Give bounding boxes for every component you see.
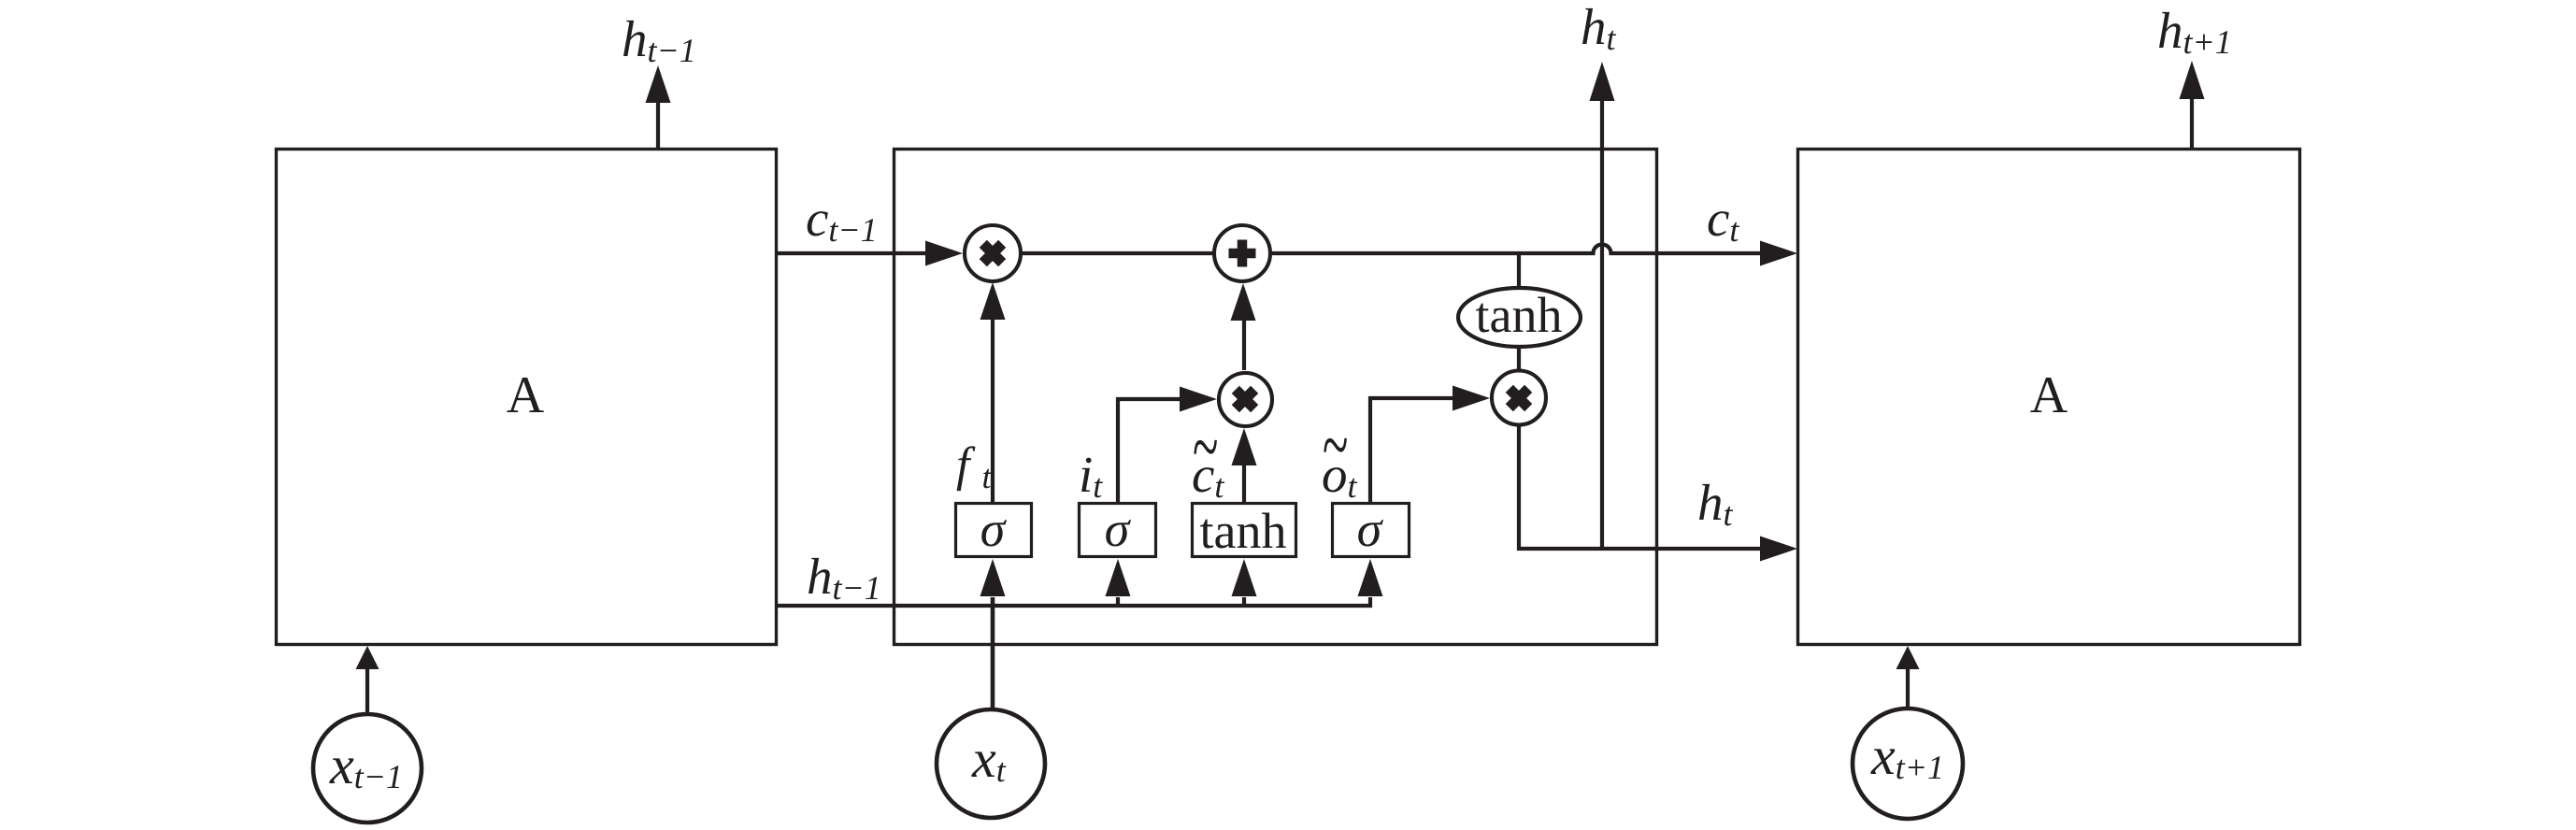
wire h_t vertical to top [1600,99,1604,549]
svg-text:it: it [1079,446,1103,505]
svg-text:ct: ct [1707,190,1739,249]
arrowhead into sigma forget box [980,559,1006,596]
svg-text:σ: σ [1105,501,1132,557]
svg-text:ct−1: ct−1 [806,190,878,249]
wire output gate up then right [1370,398,1454,503]
svg-text:σ: σ [1357,501,1384,557]
svg-text:ht−1: ht−1 [622,10,696,69]
node x_{t-1} circle [313,714,422,823]
arrowhead forget gate [980,282,1006,320]
ellipse tanh [1458,288,1581,347]
wire tanh to output multiply [1517,348,1521,370]
wire c branch to tanh [1517,253,1521,288]
arrowhead output gate into multiply [1453,386,1490,411]
box sigma input [1080,504,1156,557]
arrowhead h_t top [1590,62,1615,101]
block LSTM cell [894,150,1657,645]
svg-text:xt−1: xt−1 [329,735,403,795]
wire x_t up into cell [991,597,995,708]
arrowhead c_t [1760,241,1797,266]
wire input multiply to add [1242,320,1246,370]
box sigma output [1333,504,1410,557]
svg-text:ht: ht [1697,474,1734,533]
multiply node output [1492,371,1546,425]
wire h_{t-1} output stem [656,101,660,149]
arrowhead into tanh box [1242,597,1246,606]
wire h_{t-1} recurrent [777,597,1370,606]
plus glyph add [1229,240,1256,267]
arrowhead into add node [1231,283,1256,321]
svg-text:ft: ft [956,438,992,495]
box tanh gate [1193,504,1296,557]
svg-text:ht: ht [1581,0,1617,57]
svg-text:A: A [2030,366,2068,424]
svg-text:ht+1: ht+1 [2157,2,2232,61]
wire input gate up then right [1118,399,1181,503]
box sigma forget [956,504,1032,557]
wire c internal 1 [1023,251,1212,255]
svg-text:xt: xt [971,728,1007,789]
svg-text:xt+1: xt+1 [1870,725,1944,786]
arrowhead h_t into next block [1760,537,1797,562]
svg-text:ht−1: ht−1 [807,548,881,607]
arrowhead candidate into multiply [1232,428,1257,465]
wire candidate vertical [1242,465,1246,503]
arrowhead x_{t+1} input [1896,646,1920,669]
arrowhead into sigma input box [1116,597,1120,606]
node x_{t+1} circle [1853,708,1963,819]
wire x_{t+1} to block stem [1906,667,1910,707]
wire c internal 2 with hop over h line [1272,245,1761,254]
wire x_{t-1} to block stem [365,667,369,712]
wire forget gate vertical [991,319,995,503]
multiply node forget gate [965,225,1021,281]
arrowhead h_{t+1} [2180,61,2205,99]
arrowhead into sigma output box [1358,559,1383,596]
block A (t-1) [277,150,777,645]
svg-text:tanh: tanh [1200,503,1287,559]
svg-text:tanh: tanh [1476,287,1563,343]
cross glyph output multiply [1510,389,1528,408]
wire h_{t+1} output stem [2190,97,2194,149]
cross glyph forget multiply [983,244,1002,263]
arrowhead input gate into multiply [1180,387,1217,412]
svg-text:A: A [507,366,545,424]
cross glyph input multiply [1236,390,1254,408]
block A (t+1) [1798,150,2300,645]
multiply node input gate [1219,373,1272,426]
svg-text:σ: σ [980,501,1008,557]
arrowhead x_{t-1} input [356,646,379,669]
node x_t circle [937,709,1045,818]
arrowhead c_{t-1} [925,241,963,266]
svg-text:~: ~ [1323,399,1348,490]
arrowhead h_{t-1} output [646,65,671,103]
svg-text:~: ~ [1193,401,1218,492]
add node [1214,225,1270,281]
wire c_{t-1} [777,251,926,255]
wire h_t from output multiply [1519,427,1761,550]
